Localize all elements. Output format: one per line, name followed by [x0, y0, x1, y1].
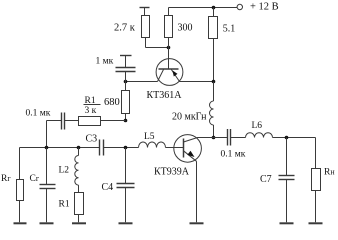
resistor R1 3к horizontal	[65, 117, 126, 126]
node L2	[77, 146, 81, 150]
resistor R1 bottom	[75, 193, 84, 223]
svg-text:КТ361А: КТ361А	[147, 90, 183, 101]
ground C4	[119, 222, 133, 224]
terminal +12V	[237, 4, 242, 9]
svg-text:C4: C4	[102, 182, 114, 193]
wire top rail	[169, 7, 238, 9]
wire KT361A right lead	[180, 81, 214, 83]
node right lead / 5.1	[212, 80, 216, 84]
capacitor C7	[279, 138, 295, 223]
capacitor C4	[117, 148, 135, 223]
svg-text:Rн: Rн	[324, 168, 335, 178]
node C7	[285, 136, 289, 140]
svg-text:5.1: 5.1	[223, 24, 236, 35]
capacitor 0.1 мк	[47, 113, 65, 148]
svg-text:R1: R1	[59, 200, 70, 210]
wire main line left	[20, 147, 100, 149]
wire L5 to KT939A	[166, 147, 184, 149]
capacitor C3	[100, 140, 104, 156]
node 2.7k/300	[167, 46, 171, 50]
svg-text:Rг: Rг	[1, 174, 11, 184]
node 20мкГн / collector line	[212, 136, 216, 140]
resistor 300	[165, 8, 173, 38]
svg-text:680: 680	[104, 97, 120, 108]
svg-text:C7: C7	[260, 174, 272, 185]
svg-text:КТ939А: КТ939А	[154, 167, 190, 178]
wire main line right of C3	[104, 147, 139, 149]
node C3/C4	[124, 146, 128, 150]
svg-text:0.1 мк: 0.1 мк	[221, 150, 246, 160]
ground Rг	[14, 222, 27, 224]
node 680 / 3k	[124, 119, 128, 123]
ground Cг	[40, 222, 54, 224]
node Cг	[45, 146, 49, 150]
node emitter/1mk	[124, 80, 128, 84]
svg-text:1 мк: 1 мк	[96, 57, 114, 67]
wire cap to L6	[231, 137, 246, 139]
wire collector line	[198, 137, 228, 139]
svg-text:L5: L5	[144, 132, 155, 142]
svg-text:3 к: 3 к	[85, 106, 97, 116]
resistor Rг	[17, 148, 24, 223]
ground R1	[72, 222, 86, 224]
svg-text:C3: C3	[86, 134, 98, 145]
svg-text:Cг: Cг	[30, 174, 40, 184]
capacitor Cг	[40, 148, 56, 223]
svg-text:300: 300	[178, 23, 193, 34]
svg-text:+ 12 В: + 12 В	[250, 2, 279, 13]
capacitor 0.1 мк output	[228, 129, 231, 146]
label R1 / 3 к	[85, 96, 97, 116]
svg-text:2.7 к: 2.7 к	[114, 23, 136, 34]
wire KT361A left lead	[126, 81, 158, 83]
resistor Rн	[312, 138, 321, 223]
svg-text:0.1 мк: 0.1 мк	[26, 109, 51, 119]
ground Rн	[309, 222, 323, 224]
svg-text:L2: L2	[59, 166, 70, 176]
terminal bar over 2.7k	[140, 8, 150, 16]
inductor L6	[246, 133, 273, 138]
ground KT939A	[190, 222, 204, 224]
inductor 20 мкГн	[210, 82, 214, 138]
resistor 2.7 к	[142, 16, 169, 48]
inductor L2	[75, 148, 79, 193]
capacitor 1 мк	[116, 68, 136, 82]
svg-text:L6: L6	[252, 121, 263, 131]
ground C7	[280, 222, 294, 224]
resistor 680	[122, 82, 130, 121]
transistor KT361A	[156, 38, 183, 86]
svg-text:20 мкГн: 20 мкГн	[172, 112, 207, 123]
inductor L5	[139, 142, 166, 148]
node top rail / 5.1	[212, 6, 216, 10]
resistor 5.1	[209, 8, 218, 82]
transistor KT939A	[174, 135, 202, 223]
wire L6 to Rн corner	[273, 137, 316, 139]
terminal bar over 1 мк	[120, 56, 132, 68]
